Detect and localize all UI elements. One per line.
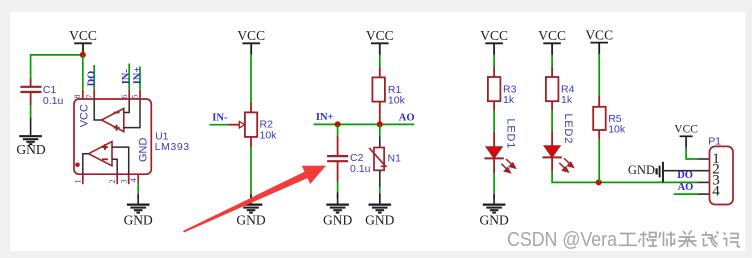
svg-text:0.1u: 0.1u (350, 163, 371, 175)
wire pin7 DO stub (93, 65, 95, 90)
svg-text:1k: 1k (561, 94, 573, 106)
svg-text:2: 2 (107, 179, 117, 183)
wire GND to P1 pin 2 (663, 170, 710, 172)
wire pin5 IN+ stub (139, 67, 141, 90)
svg-text:1k: 1k (503, 94, 515, 106)
shi (659, 232, 675, 247)
node junction R1/N1 (377, 121, 383, 127)
svg-text:GND: GND (137, 138, 149, 163)
wire AO to P1 pin 4 (674, 193, 698, 195)
svg-text:GND: GND (124, 212, 153, 227)
op-amp B (bottom) triangle (89, 142, 113, 166)
resistor R1 (379, 67, 381, 77)
svg-text:VCC: VCC (69, 28, 97, 43)
op-amp B wires (83, 147, 129, 174)
wire VCC down to U1 pin 8 (82, 55, 84, 90)
op-amp U1 body (74, 99, 151, 174)
svg-text:GND: GND (479, 212, 508, 227)
wire VCC to R4 (551, 55, 553, 67)
svg-text:CSDN @Vera: CSDN @Vera (507, 229, 618, 251)
op-amp A (top) triangle (102, 108, 124, 131)
svg-text:LM393: LM393 (155, 141, 190, 153)
svg-text:VCC: VCC (538, 28, 566, 43)
ground below N1 (369, 194, 392, 212)
op-amp A wires (94, 100, 140, 128)
ground below R2 (240, 194, 263, 212)
svg-text:VCC: VCC (79, 104, 91, 127)
svg-text:VCC: VCC (674, 124, 698, 136)
cheng2 (639, 232, 658, 248)
wire junction to C2 (337, 124, 339, 135)
resistor R4 (551, 67, 553, 78)
wire VCC to R2 (250, 55, 252, 102)
wire pin3 stub (black part) (698, 181, 710, 183)
LED1 (493, 132, 495, 147)
resistor R5 (598, 96, 600, 107)
svg-text:DO: DO (677, 170, 693, 181)
wire R2 to ground (250, 148, 252, 197)
wire C2 to ground (337, 182, 339, 192)
resistor R3 (493, 67, 495, 78)
svg-text:GND: GND (236, 212, 265, 227)
svg-text:GND: GND (628, 163, 655, 177)
svg-text:GND: GND (365, 212, 394, 227)
svg-text:10k: 10k (260, 129, 278, 141)
wire VCC junction to C1 top (31, 55, 83, 79)
svg-text:0.1u: 0.1u (43, 95, 64, 107)
wire N1 to ground (379, 170, 381, 187)
svg-text:IN+: IN+ (133, 67, 144, 85)
U1 bottom pin leads 1 2 3 4 (83, 174, 138, 184)
wire LED1 to ground (493, 158, 495, 173)
LED2 (551, 131, 553, 146)
svg-text:AO: AO (399, 113, 415, 124)
wire pin6 IN- stub (128, 64, 130, 90)
ground below U1 pin 4 (127, 194, 150, 212)
wire LED2 cathode down and right to P1 pin 3 net (551, 157, 553, 171)
svg-text:LED1: LED1 (505, 119, 517, 150)
svg-text:VCC: VCC (237, 28, 265, 43)
wire IN+ / AO horizontal net (314, 123, 415, 125)
wire R3 to LED1 (493, 111, 495, 133)
connector P1 body (710, 146, 734, 204)
thermistor N1 (374, 148, 384, 171)
wire VCC to R1 (379, 55, 381, 67)
node junction at VCC (80, 52, 86, 58)
svg-text:GND: GND (16, 142, 45, 157)
node junction R5 (596, 179, 602, 185)
wire R4 to LED2 (551, 111, 553, 132)
wire C1 to GND (30, 105, 32, 118)
node junction C2 (335, 121, 341, 127)
svg-text:AO: AO (678, 182, 694, 193)
wiper wire IN- (210, 124, 228, 126)
svg-text:3: 3 (118, 179, 128, 183)
capacitor C1 (20, 79, 41, 106)
capacitor C2 (327, 136, 348, 182)
wire VCC to R3 (493, 55, 495, 67)
cheng (702, 232, 719, 248)
svg-text:10k: 10k (608, 123, 626, 135)
gong (619, 234, 638, 246)
svg-text:IN-: IN- (212, 112, 228, 123)
ji (723, 233, 740, 248)
ground below C2 (326, 194, 349, 212)
svg-text:DO: DO (87, 71, 98, 87)
wire VCC to P1 pin 1 (686, 148, 697, 159)
resistor R2 (pot) (250, 102, 252, 112)
svg-text:IN+: IN+ (316, 112, 334, 123)
svg-text:4: 4 (712, 183, 720, 199)
svg-text:1: 1 (72, 179, 82, 183)
wire VCC to R5 (598, 54, 600, 96)
svg-text:IN-: IN- (121, 69, 132, 85)
ground below C1 (30, 118, 32, 126)
yang (678, 231, 697, 248)
watermark CJK glyphs (619, 231, 741, 248)
svg-text:GND: GND (323, 212, 352, 227)
svg-text:VCC: VCC (366, 28, 394, 43)
svg-text:LED2: LED2 (562, 114, 574, 145)
U1 top pin leads 8 7 6 5 (83, 90, 140, 100)
svg-text:P1: P1 (708, 135, 721, 147)
wire junction to N1 (379, 124, 381, 136)
wire R5 to junction (598, 139, 600, 182)
annotation red arrow (183, 166, 326, 233)
svg-text:VCC: VCC (585, 28, 613, 43)
svg-text:10k: 10k (388, 95, 406, 107)
wire pin4 to ground (137, 183, 139, 195)
ground below LED1 (483, 194, 506, 212)
orientation dot (75, 163, 80, 168)
svg-text:N1: N1 (388, 153, 402, 165)
svg-text:VCC: VCC (480, 28, 508, 43)
